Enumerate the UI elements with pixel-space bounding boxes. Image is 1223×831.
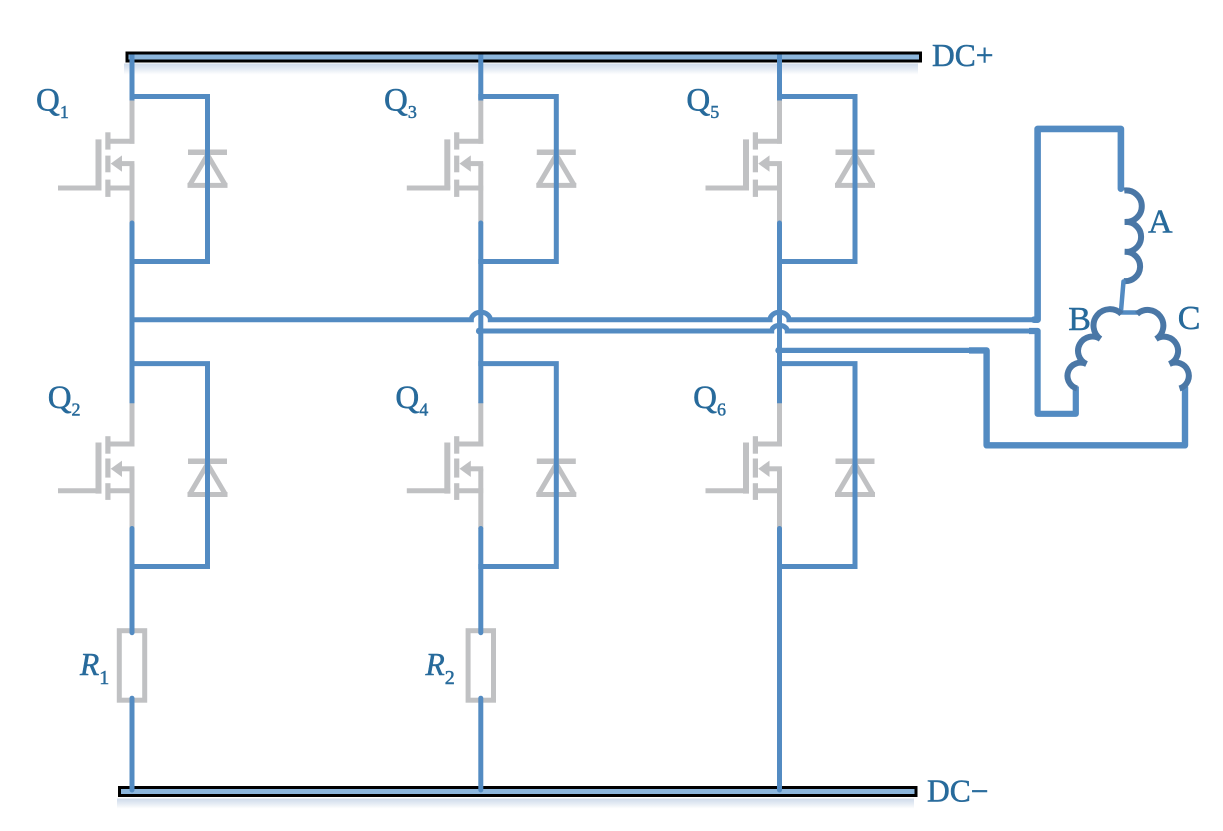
svg-text:DC−: DC− — [927, 774, 989, 809]
svg-text:DC+: DC+ — [932, 38, 994, 73]
svg-text:B: B — [1068, 301, 1091, 338]
svg-text:C: C — [1178, 300, 1201, 337]
svg-text:A: A — [1148, 204, 1173, 241]
